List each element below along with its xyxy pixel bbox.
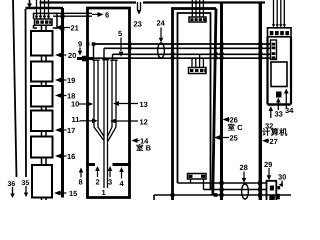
small mark right of detector box: [277, 194, 280, 200]
svg-text:33: 33: [275, 110, 283, 119]
label 25 with arrow: [214, 135, 221, 140]
svg-text:5: 5: [118, 29, 122, 38]
chamber A right wall: [61, 8, 64, 198]
nozzle tube A (outer left, double wall): [94, 61, 104, 141]
svg-text:23: 23: [134, 20, 142, 29]
label 23 pipe stub: [138, 2, 141, 10]
svg-text:25: 25: [230, 134, 238, 143]
pipe input connector strip: [271, 40, 277, 60]
junction dot on bar 9: [82, 56, 88, 62]
svg-text:16: 16: [67, 152, 75, 161]
svg-text:11: 11: [72, 115, 80, 124]
bellows chain box 2: [31, 62, 53, 82]
tube drop from P3: [112, 54, 114, 60]
bellows chain box 6: [32, 165, 52, 198]
bellows chain box 4: [31, 111, 53, 132]
pipe crossing dots right wall: [258, 42, 262, 45]
wire arrowheads into computer connector: [272, 24, 286, 27]
enclosure around connector 21: [34, 13, 58, 28]
lower hatched connector in middle chamber: [189, 68, 207, 74]
middle chamber outer box right wall (slight skew): [213, 9, 216, 196]
stub inner-right wall corner down: [210, 183, 212, 190]
label 17 with arrow: [61, 129, 67, 131]
top border line: [40, 1, 266, 3]
tube drop from P1: [93, 44, 95, 61]
label 13 with arrow: [119, 103, 138, 105]
wires into computer connector: [274, 0, 285, 25]
bottom connector bar in middle chamber: [188, 174, 207, 180]
svg-text:19: 19: [67, 76, 75, 85]
arrow 36: [12, 187, 14, 194]
neck 1: [42, 26, 47, 32]
wire arrowheads into connector 21: [35, 16, 51, 20]
svg-text:1: 1: [102, 188, 106, 197]
display rectangle: [271, 62, 287, 87]
svg-text:17: 17: [67, 126, 75, 135]
label 27 with arrow: [262, 138, 269, 143]
pipe crossing dots chamber C wall: [220, 42, 224, 45]
label 14 with arrow: [138, 140, 140, 142]
label 21 with arrow: [61, 27, 70, 29]
black component square: [276, 92, 282, 98]
junction dot on wall below pipe 6: [61, 27, 65, 31]
computer column walls: [268, 37, 292, 105]
bottom line L3: [154, 194, 291, 196]
horizontal pipe P1: [94, 43, 272, 45]
svg-text:10: 10: [71, 100, 79, 109]
arrow 28: [243, 172, 245, 179]
svg-text:21: 21: [71, 24, 79, 33]
arrow 6: [92, 13, 99, 15]
svg-text:24: 24: [157, 19, 166, 28]
inlet down arrow at top of chamber A: [29, 0, 31, 5]
detector box 29/30: [267, 181, 277, 200]
small mark below detector box: [269, 196, 275, 201]
neck 6: [42, 158, 47, 166]
svg-text:3: 3: [108, 178, 112, 187]
svg-text:29: 29: [264, 160, 272, 169]
arrow 35: [25, 186, 27, 193]
junction dots bottom: [171, 193, 175, 197]
label 11 with arrow: [80, 120, 93, 122]
computer box bottom: [268, 103, 291, 105]
stub from bar right nub down: [203, 179, 205, 190]
arrow 23: [137, 10, 142, 15]
nub on detector box right wall: [277, 186, 280, 189]
svg-text:30: 30: [278, 173, 286, 182]
label 4 with up arrow: [121, 171, 123, 179]
chamber B floor left segment: [86, 163, 95, 166]
bottom line L2: [204, 189, 268, 191]
horizontal pipe P4: [93, 57, 271, 59]
svg-text:2: 2: [96, 178, 100, 187]
svg-text:12: 12: [140, 118, 148, 127]
label 15 with arrow: [61, 192, 67, 194]
tube drop from P2: [103, 48, 105, 60]
label 3 with up arrow: [109, 170, 111, 178]
neck 5: [42, 131, 47, 137]
svg-text:室 B: 室 B: [136, 144, 152, 153]
horizontal pipe P3: [113, 53, 272, 55]
label 18 with arrow: [61, 95, 67, 97]
label 10 with arrow: [79, 103, 88, 105]
wires into connector 21: [37, 0, 49, 16]
neck 2: [42, 56, 47, 62]
label 26 with arrow: [223, 117, 230, 122]
tube drop junction dot: [92, 42, 96, 45]
svg-text:36: 36: [8, 181, 16, 188]
neck 4: [42, 107, 47, 111]
middle hatched connector: [189, 17, 206, 22]
wires into middle connector: [192, 0, 203, 17]
valve ellipse 28: [242, 184, 249, 199]
svg-text:35: 35: [22, 180, 30, 187]
neck 7 below last box: [42, 198, 47, 201]
stub L3 left end down: [153, 195, 155, 200]
computer hatched connector: [268, 28, 292, 37]
junction dot on wall at pipe 6: [61, 13, 65, 19]
arrow 34: [285, 93, 287, 108]
svg-text:34: 34: [285, 106, 294, 115]
bellows chain box 1: [31, 31, 53, 56]
bellows chain box 3: [31, 86, 53, 107]
black square in detector box: [270, 186, 274, 191]
svg-text:6: 6: [105, 11, 109, 20]
pipe crossing dots chamber B walls: [86, 43, 89, 46]
pipe line 36 (left vertical): [13, 0, 17, 177]
stub from bar left nub down: [190, 179, 192, 183]
arrow 33 to black square: [277, 101, 279, 110]
svg-text:计算机: 计算机: [262, 127, 288, 137]
junction bar 9 (P4 stub through wall): [77, 57, 93, 60]
middle chamber outer box left wall and top: [173, 9, 217, 201]
svg-text:27: 27: [270, 137, 278, 146]
middle chamber inner box: [178, 13, 211, 190]
chamber C left wall: [220, 3, 223, 201]
svg-text:9: 9: [78, 40, 82, 49]
svg-text:15: 15: [69, 189, 77, 198]
label 2 with up arrow: [97, 170, 99, 178]
svg-text:室 C: 室 C: [228, 123, 244, 132]
neck 3: [42, 82, 47, 87]
pipe line 35 (second vertical): [25, 9, 28, 177]
bottom line L1 (inner bottom continuing to detector): [178, 182, 268, 184]
arrow 32: [270, 110, 272, 118]
chamber B outer box: [88, 8, 130, 198]
label 8 with up arrow: [80, 171, 82, 178]
nozzle tube B capillary left wall: [103, 61, 105, 189]
svg-text:28: 28: [240, 163, 248, 172]
pipe crossing dots middle chamber walls: [171, 52, 175, 55]
label 19 with arrow: [61, 79, 67, 81]
right main wall: [259, 3, 262, 201]
horizontal pipe P2: [104, 47, 271, 49]
svg-text:20: 20: [68, 51, 76, 60]
hatched connector box 21: [35, 19, 53, 25]
chamber B floor right segment: [113, 163, 132, 166]
label 12 with arrow: [116, 120, 138, 122]
nozzle tube C (outer right, double wall): [108, 61, 117, 142]
svg-text:8: 8: [79, 178, 83, 187]
nozzle tube mouth flanges: [92, 59, 117, 62]
valve ellipse 24: [158, 43, 165, 58]
arrow 24: [160, 28, 162, 39]
svg-text:13: 13: [140, 100, 148, 109]
wires from pipes to lower connector: [192, 54, 203, 67]
chamber A top plate: [26, 7, 64, 10]
bellows chain box 5: [31, 137, 53, 158]
pipe 6 from chamber A to chamber B: [53, 13, 92, 16]
label 20 with arrow: [61, 54, 67, 56]
label 16 with arrow: [61, 155, 67, 157]
nozzle tube B capillary right wall: [107, 61, 109, 189]
